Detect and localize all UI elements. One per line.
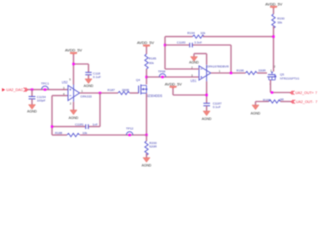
resistor R190 30k bbox=[272, 14, 285, 28]
node input-cap tap bbox=[31, 88, 33, 90]
node feedback top bbox=[272, 35, 274, 37]
svg-text:UA2_OUT+: UA2_OUT+ bbox=[295, 91, 314, 95]
node output port junction bbox=[271, 91, 273, 93]
node cap-branch tap bbox=[230, 72, 232, 74]
svg-text:330R: 330R bbox=[258, 68, 266, 72]
svg-text:5: 5 bbox=[69, 77, 71, 81]
node op2 V+ bbox=[205, 94, 207, 96]
wire cap stem bbox=[31, 90, 33, 97]
svg-text:R190: R190 bbox=[277, 16, 285, 20]
wire op2 top pin to ground bbox=[194, 54, 207, 65]
svg-text:UA2_DAC: UA2_DAC bbox=[6, 88, 23, 92]
wire V- to ground bbox=[73, 102, 75, 110]
svg-text:TP12: TP12 bbox=[126, 127, 134, 131]
port UA2_OUT- bbox=[291, 100, 318, 104]
svg-text:7: 7 bbox=[316, 100, 318, 104]
op-amp U51 OPA1678IDBVR bbox=[191, 64, 230, 83]
svg-text:0.1uF: 0.1uF bbox=[93, 75, 101, 79]
svg-text:Q4: Q4 bbox=[136, 78, 140, 82]
wire source column bbox=[146, 93, 148, 135]
node source junction bbox=[145, 134, 147, 136]
resistor R185 30k bbox=[145, 54, 157, 69]
testpoint TP12 bbox=[126, 127, 134, 137]
node feedback split bbox=[51, 125, 53, 127]
svg-text:200R: 200R bbox=[122, 88, 130, 92]
svg-text:TPC1: TPC1 bbox=[41, 81, 49, 85]
svg-text:1: 1 bbox=[219, 69, 221, 73]
power AVDD_5V (stage1) bbox=[65, 49, 82, 56]
feedback resistor R194 10k bbox=[165, 31, 274, 38]
svg-text:NTR2101PT1G: NTR2101PT1G bbox=[280, 77, 299, 81]
power AVDD_5V (op2 V+) bbox=[165, 82, 182, 89]
svg-text:AVDD_5V: AVDD_5V bbox=[137, 41, 154, 45]
wire bbox=[273, 8, 275, 14]
resistor R200 620R bbox=[145, 141, 158, 155]
wire bbox=[88, 75, 90, 79]
svg-text:TP08: TP08 bbox=[158, 70, 166, 74]
svg-text:1nF: 1nF bbox=[93, 123, 98, 127]
op-amp U52 OPA333 bbox=[62, 77, 92, 105]
wire Q5 drain to port bbox=[271, 80, 291, 93]
node V+ bbox=[72, 63, 74, 65]
node drain junction bbox=[145, 76, 147, 78]
svg-text:30k: 30k bbox=[149, 61, 154, 65]
resistor R187 200R bbox=[108, 88, 130, 95]
port UA2_OUT+ bbox=[290, 91, 317, 95]
svg-text:2: 2 bbox=[274, 64, 276, 68]
feedback capacitor C1181 1nF bbox=[52, 93, 100, 129]
svg-text:R188: R188 bbox=[55, 131, 63, 135]
ground AGND (op2 top) bbox=[189, 57, 199, 65]
wire input row bbox=[28, 89, 68, 91]
svg-text:R199: R199 bbox=[263, 98, 271, 102]
svg-text:AGND: AGND bbox=[27, 110, 37, 114]
wire bbox=[206, 106, 208, 111]
node output tap bbox=[99, 92, 101, 94]
wire bbox=[31, 99, 33, 105]
power AVDD_5V (30k pull) bbox=[265, 2, 282, 9]
svg-text:AGND: AGND bbox=[189, 60, 199, 64]
svg-text:AGND: AGND bbox=[251, 111, 261, 115]
svg-text:AGND: AGND bbox=[84, 84, 94, 88]
wire op2 V+ feed bbox=[173, 81, 207, 103]
ground AGND (R200) bbox=[142, 158, 152, 168]
svg-text:7: 7 bbox=[315, 91, 317, 95]
svg-text:R185: R185 bbox=[149, 56, 157, 60]
svg-text:0.1uF: 0.1uF bbox=[213, 105, 221, 109]
wire bbox=[280, 101, 290, 103]
wire bbox=[146, 47, 148, 54]
testpoint TP08 bbox=[158, 70, 166, 79]
wire bbox=[146, 135, 148, 141]
svg-text:100pF: 100pF bbox=[37, 99, 46, 103]
svg-text:OPA1678IDBVR: OPA1678IDBVR bbox=[207, 64, 230, 68]
capacitor C118 0.1uF bbox=[85, 71, 101, 79]
feedback resistor R188 10k bbox=[52, 131, 147, 137]
svg-text:10k: 10k bbox=[82, 131, 87, 135]
capacitor C1187 0.1uF bbox=[203, 102, 221, 110]
svg-text:2: 2 bbox=[70, 102, 72, 106]
svg-text:R194: R194 bbox=[187, 31, 195, 35]
svg-text:C1181: C1181 bbox=[75, 123, 84, 127]
wire V+ feed bbox=[74, 55, 89, 85]
svg-text:OPA333: OPA333 bbox=[80, 95, 92, 99]
svg-text:Si2304DDS: Si2304DDS bbox=[146, 94, 162, 98]
svg-text:3.3nF: 3.3nF bbox=[194, 41, 202, 45]
ground AGND (input cap) bbox=[27, 105, 37, 114]
power AVDD_5V (Q4 branch) bbox=[137, 41, 154, 48]
svg-text:R187: R187 bbox=[108, 88, 116, 92]
svg-text:10k: 10k bbox=[200, 31, 205, 35]
wire to Q5 gate bbox=[257, 72, 267, 74]
wire drain column bbox=[146, 69, 148, 84]
ground AGND (op1 V-) bbox=[69, 110, 79, 120]
ground AGND (out- ref) bbox=[251, 105, 261, 115]
wire op1 output row bbox=[80, 92, 118, 94]
svg-text:R196: R196 bbox=[237, 68, 245, 72]
wire bbox=[256, 102, 269, 106]
svg-text:AVDD_5V: AVDD_5V bbox=[265, 2, 282, 6]
svg-text:620R: 620R bbox=[149, 145, 157, 149]
svg-text:AGND: AGND bbox=[69, 116, 79, 120]
svg-text:AGND: AGND bbox=[202, 117, 212, 121]
testpoint TPC1 bbox=[41, 81, 49, 90]
ground AGND (C118) bbox=[84, 79, 94, 88]
transistor Q5 NTR2101PT1G bbox=[267, 64, 299, 85]
wire to op2 +in bbox=[147, 76, 199, 78]
svg-text:U52: U52 bbox=[62, 81, 68, 85]
feedback capacitor C1183 3.3nF bbox=[165, 41, 231, 73]
wire op2 output row bbox=[211, 72, 246, 74]
wire inverting input bbox=[52, 96, 68, 135]
svg-text:C1183: C1183 bbox=[177, 41, 186, 45]
svg-text:U51: U51 bbox=[191, 79, 197, 83]
node loop split bbox=[164, 44, 166, 46]
svg-text:30k: 30k bbox=[277, 21, 282, 25]
svg-text:AVDD_5V: AVDD_5V bbox=[65, 49, 82, 53]
svg-text:AGND: AGND bbox=[142, 163, 152, 167]
wire down to Q5 bbox=[273, 26, 275, 71]
ground AGND (C1187) bbox=[202, 111, 212, 121]
transistor Q4 Si2304DDS bbox=[136, 78, 162, 98]
wire -in loop left bbox=[165, 37, 199, 69]
wire bbox=[146, 153, 148, 157]
wire to gate bbox=[130, 92, 139, 94]
port UA2_DAC bbox=[2, 88, 28, 92]
capacitor C1154 bbox=[29, 95, 46, 102]
resistor R199 0R bbox=[263, 98, 285, 103]
resistor R196 330R bbox=[237, 68, 273, 74]
svg-text:UA2_OUT-: UA2_OUT- bbox=[296, 100, 314, 104]
